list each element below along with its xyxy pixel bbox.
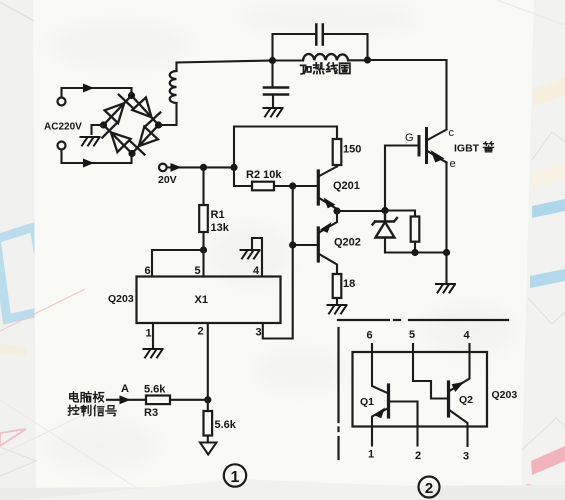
ground under 18 — [328, 305, 347, 314]
resistor R1 — [202, 167, 204, 205]
triangle ground — [200, 443, 217, 455]
IGBT U1 — [419, 129, 427, 163]
transistor Q201 — [293, 185, 319, 187]
ground at C2 — [264, 108, 283, 117]
svg-text:1: 1 — [146, 328, 152, 340]
svg-text:IGBT: IGBT — [454, 143, 480, 155]
capacitor C2 to ground from node A — [271, 61, 273, 88]
wire bridge right node to choke — [159, 103, 177, 125]
left margin gray — [0, 0, 36, 500]
resistor R3 — [146, 396, 170, 405]
线 — [327, 63, 337, 73]
parallel capacitor C1 above coil — [273, 34, 317, 61]
号 — [106, 406, 116, 416]
wire emitter to ground — [445, 253, 447, 283]
zener diode ZD — [373, 211, 398, 225]
resistor R5 5.6k vertical — [207, 400, 209, 411]
svg-text:4: 4 — [464, 330, 471, 342]
node dots bridge — [128, 92, 135, 99]
resistor 150 — [333, 139, 342, 165]
svg-text:Q203: Q203 — [492, 389, 518, 401]
板 — [93, 392, 103, 402]
svg-text:4: 4 — [253, 265, 260, 277]
vertical bus Q201/Q202 bases to pin3 — [263, 186, 293, 339]
svg-text:G: G — [405, 132, 414, 144]
圈 — [340, 63, 350, 73]
node B (LC right) — [364, 56, 371, 63]
diode D3 bottom-left — [102, 124, 130, 152]
pink bands right — [531, 446, 565, 475]
svg-text:6: 6 — [367, 330, 373, 342]
svg-text:R3: R3 — [144, 407, 158, 419]
node 20V/R1 — [200, 164, 207, 171]
svg-text:5: 5 — [409, 329, 415, 341]
svg-text:1: 1 — [231, 469, 240, 486]
控 — [68, 405, 78, 415]
bottom wire zener/R4/emitter — [385, 251, 447, 253]
svg-text:Q203: Q203 — [108, 293, 134, 305]
20V terminal — [159, 164, 167, 172]
pin6 wire — [152, 250, 204, 277]
制 — [81, 405, 91, 415]
svg-text:6: 6 — [145, 265, 151, 277]
svg-text:A: A — [121, 383, 129, 395]
svg-text:5: 5 — [195, 265, 201, 277]
svg-text:c: c — [449, 127, 455, 139]
right margin gray — [521, 0, 565, 500]
bridge rectifier edges — [104, 96, 159, 154]
svg-text:Q2: Q2 — [459, 394, 473, 406]
pin4 ground bracket — [252, 238, 262, 277]
pin1 wire to ground — [152, 323, 154, 347]
脑 — [81, 392, 92, 402]
diode D4 bottom-right — [130, 127, 158, 155]
transistor Q202 — [293, 244, 319, 246]
arrow on upper AC wire — [83, 84, 94, 93]
diode D2 top-right — [132, 98, 160, 126]
faint lines bottom-left — [0, 289, 85, 331]
wire heating coil to node B — [348, 59, 367, 61]
svg-text:3: 3 — [463, 451, 469, 463]
svg-text:1: 1 — [368, 449, 374, 461]
heating coil inductor — [303, 54, 348, 60]
node A (LC left) — [269, 57, 276, 64]
wire AC lower to bridge bottom — [62, 150, 132, 164]
wire bridge left node to ground — [92, 125, 104, 134]
wire choke top to LC left — [177, 61, 273, 72]
svg-text:5.6k: 5.6k — [215, 419, 237, 431]
resistor 18 — [333, 274, 342, 298]
right bands — [533, 78, 565, 106]
dash-dot separator horizontal — [338, 319, 508, 321]
svg-text:2: 2 — [415, 450, 421, 462]
加 — [301, 65, 311, 74]
node 20V/150 — [230, 164, 237, 171]
wire gate node to resistor R4 — [385, 211, 415, 217]
svg-text:R1: R1 — [211, 209, 225, 221]
resistor R2 — [252, 182, 274, 191]
svg-text:X1: X1 — [195, 294, 208, 306]
pin2 wire down — [207, 323, 209, 400]
svg-text:2: 2 — [198, 326, 204, 338]
arrow A into R3 — [107, 399, 146, 401]
resistor R4 (gate) — [411, 217, 420, 242]
svg-text:3: 3 — [256, 327, 262, 339]
circled 1 — [224, 464, 246, 486]
svg-text:18: 18 — [343, 278, 355, 290]
beige strip left — [0, 344, 27, 356]
svg-text:150: 150 — [343, 144, 361, 156]
电 — [70, 392, 79, 402]
svg-text:Q1: Q1 — [360, 396, 374, 408]
svg-text:AC220V: AC220V — [44, 122, 82, 133]
svg-text:20V: 20V — [158, 174, 177, 186]
svg-text:5.6k: 5.6k — [144, 384, 166, 396]
wire from Q201/Q202 emitters to gate node — [337, 210, 385, 212]
wire up to 150 resistor — [234, 127, 337, 168]
svg-text:Q202: Q202 — [334, 237, 361, 249]
terminal lower AC — [58, 142, 66, 150]
wire 20V node down to R2 — [234, 167, 252, 186]
IC X1 box — [137, 277, 281, 324]
ground IGBT emitter — [436, 284, 455, 293]
Q203 internal box — [353, 352, 488, 427]
svg-text:Q201: Q201 — [333, 180, 360, 192]
dash-dot separator vertical — [337, 328, 339, 459]
control signal text — [70, 392, 104, 402]
diode D1 top-left — [105, 95, 133, 123]
wire to heating coil — [273, 59, 304, 61]
svg-text:2: 2 — [425, 480, 433, 497]
choke inductor L1 — [170, 71, 177, 103]
pink corner bits bottom-left — [0, 429, 26, 446]
pin5 wire — [202, 250, 204, 277]
circled 2 — [419, 477, 440, 498]
热 — [314, 63, 324, 74]
svg-text:R2 10k: R2 10k — [246, 169, 282, 181]
label heating coil (drawn glyphs) — [301, 63, 350, 74]
arrow on lower AC wire — [83, 159, 94, 168]
svg-text:e: e — [450, 158, 456, 170]
gate line down to zener — [384, 146, 386, 211]
ground at bridge left — [81, 137, 100, 146]
transistor Q2 internal — [413, 344, 449, 399]
transistor Q1 internal — [372, 344, 389, 394]
svg-text:13k: 13k — [211, 222, 230, 234]
管 glyph — [483, 142, 493, 152]
wire node B to IGBT collector — [368, 60, 447, 129]
信 — [94, 405, 104, 415]
bottom gray band — [0, 485, 565, 500]
terminal upper AC — [58, 98, 66, 106]
wire AC upper to bridge top — [62, 88, 132, 98]
